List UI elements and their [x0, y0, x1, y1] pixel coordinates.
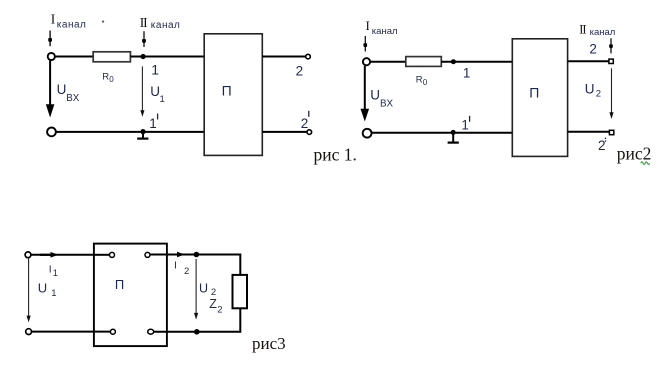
- stray dot: [102, 20, 104, 22]
- node 1' label (fig2): [461, 116, 469, 133]
- wire top-left (fig2): [370, 61, 405, 63]
- node 1' junction and ground (fig1): [137, 129, 148, 139]
- svg-text:U: U: [57, 82, 67, 97]
- node top junction (fig3): [194, 252, 200, 258]
- svg-text:2: 2: [596, 88, 601, 99]
- wire right vertical bottom (fig3): [239, 308, 241, 333]
- svg-text:ВХ: ВХ: [66, 93, 80, 104]
- label II канал (fig1): [140, 15, 181, 31]
- svg-text:U: U: [199, 281, 208, 295]
- svg-text:2: 2: [589, 41, 597, 56]
- svg-text:1: 1: [160, 94, 165, 105]
- caption рис2: [617, 144, 652, 165]
- wire output bottom (fig1): [262, 131, 307, 133]
- svg-text:П: П: [222, 82, 232, 98]
- svg-text:0: 0: [109, 75, 114, 84]
- wire bottom-right of box (fig3): [154, 331, 241, 333]
- wire stub to inner top-left terminal (fig3): [94, 254, 110, 256]
- svg-text:I: I: [366, 18, 370, 33]
- svg-text:2: 2: [301, 116, 309, 131]
- wire top-left (fig1): [55, 56, 93, 58]
- svg-text:II: II: [140, 15, 148, 30]
- node 1' junction and ground (fig2): [448, 130, 459, 143]
- wire output top (fig1): [262, 56, 306, 58]
- arrow II канал (fig2, dashed down-arrow): [609, 38, 613, 53]
- svg-text:2: 2: [598, 138, 606, 153]
- terminal 2' (fig1): [301, 111, 312, 135]
- label U2 (fig3): [199, 281, 216, 298]
- svg-text:2: 2: [184, 266, 189, 277]
- svg-text:рис3: рис3: [252, 334, 286, 353]
- node 1' (fig1): [149, 114, 157, 132]
- impedance Z2 (fig3): [233, 275, 248, 308]
- label U1 (fig1): [150, 84, 164, 105]
- resistor R0 (fig2): [406, 57, 442, 87]
- arrow U1 (fig3): [27, 259, 31, 323]
- label Z2 (fig3): [209, 297, 222, 315]
- arrow I2 current (fig3): [177, 252, 185, 258]
- terminal inside top-right (fig3): [145, 252, 150, 257]
- wire stub to inner bottom-left terminal (fig3): [94, 331, 110, 333]
- two-port box П (fig1): [204, 34, 262, 156]
- terminal input top (fig3): [25, 252, 31, 258]
- terminal inside bottom-right (fig3): [148, 329, 154, 334]
- wire bottom-left (fig3): [32, 331, 94, 333]
- wire top-right of box (fig3): [150, 254, 240, 256]
- terminal 2 (fig2): [609, 59, 613, 63]
- label I2 (fig3): [174, 259, 189, 277]
- label Uвх (fig2): [370, 87, 393, 109]
- svg-text:П: П: [115, 277, 124, 292]
- terminal input bottom (fig1): [47, 127, 56, 136]
- arrow U2 (fig3): [194, 259, 198, 320]
- svg-text:U: U: [370, 87, 380, 102]
- svg-text:2: 2: [211, 287, 216, 298]
- wire resistor to box (fig1): [130, 56, 204, 58]
- label I канал (fig1): [51, 12, 87, 31]
- svg-text:2: 2: [296, 63, 304, 78]
- label Uвх (fig1): [57, 82, 80, 104]
- wire resistor to box (fig2): [441, 61, 512, 63]
- label U1 (fig3): [38, 281, 57, 300]
- two-port box П (fig3): [94, 244, 167, 347]
- label U2 (fig2): [585, 81, 601, 99]
- svg-text:канал: канал: [57, 20, 87, 31]
- svg-text:R: R: [102, 72, 109, 83]
- resistor R0 (fig1): [93, 52, 130, 84]
- terminal input top (fig1): [48, 53, 55, 60]
- svg-text:канал: канал: [151, 20, 181, 31]
- two-port box П (fig2): [512, 39, 567, 157]
- svg-text:I: I: [51, 12, 56, 27]
- svg-text:1: 1: [463, 66, 471, 81]
- svg-text:1: 1: [461, 117, 469, 132]
- svg-text:1: 1: [51, 288, 56, 299]
- svg-text:U: U: [585, 81, 595, 96]
- svg-text:ВХ: ВХ: [380, 99, 394, 110]
- arrow II канал (fig1, dashed down-arrow): [142, 31, 146, 47]
- arrow Uвх (fig2): [361, 66, 370, 122]
- terminal inside top-left (fig3): [110, 252, 115, 257]
- wire bottom (fig1): [56, 131, 204, 133]
- svg-text:U: U: [38, 281, 47, 296]
- svg-text:1: 1: [149, 116, 157, 131]
- svg-text:I: I: [49, 264, 52, 276]
- svg-text:рис2: рис2: [617, 144, 652, 164]
- wire bottom (fig2): [372, 132, 513, 134]
- label I канал (fig2): [366, 18, 398, 37]
- wire output top (fig2): [568, 60, 609, 62]
- arrow I1 current (fig3): [40, 252, 59, 258]
- node bottom junction (fig3): [194, 329, 200, 335]
- arrow I канал (fig1, dashed down-arrow): [48, 31, 52, 47]
- svg-text:канал: канал: [372, 26, 398, 37]
- svg-text:I: I: [174, 259, 177, 271]
- terminal 2' (fig2): [598, 130, 614, 153]
- svg-text:0: 0: [423, 78, 428, 87]
- terminal input top (fig2): [363, 58, 370, 65]
- svg-text:R: R: [416, 74, 423, 85]
- arrow U1 (fig1): [140, 66, 144, 116]
- wire output bottom (fig2): [568, 131, 610, 133]
- arrow I канал (fig2, dashed down-arrow): [363, 36, 367, 52]
- arrow U2 (fig2): [609, 68, 613, 119]
- node 1 (fig1): [141, 54, 160, 77]
- svg-text:1: 1: [151, 61, 159, 77]
- arrow Uвх (fig1): [46, 61, 55, 118]
- label II канал (fig2): [579, 22, 615, 38]
- label I1 (fig3): [49, 264, 58, 279]
- wire right vertical top (fig3): [239, 254, 241, 275]
- svg-text:1: 1: [53, 268, 58, 279]
- terminal input bottom (fig2): [363, 129, 372, 138]
- node 1 (fig2): [451, 59, 471, 80]
- svg-text:рис 1.: рис 1.: [314, 145, 357, 165]
- svg-text:Z: Z: [209, 297, 217, 311]
- svg-text:2: 2: [217, 305, 222, 316]
- terminal input bottom (fig3): [26, 329, 32, 335]
- svg-text:П: П: [529, 85, 539, 101]
- terminal inside bottom-left (fig3): [110, 329, 115, 334]
- wire top-left (fig3): [31, 254, 94, 256]
- svg-text:II: II: [579, 22, 586, 36]
- terminal 2 (fig1): [296, 54, 311, 78]
- svg-text:канал: канал: [590, 27, 616, 38]
